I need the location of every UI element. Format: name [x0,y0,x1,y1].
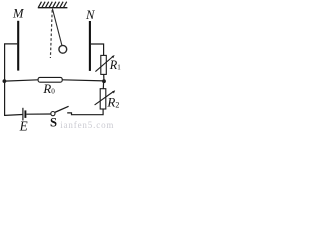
svg-text:E: E [19,118,28,131]
svg-text:R1: R1 [109,58,121,72]
battery E long plate [22,108,24,121]
rheostat R2 arrow [95,92,114,105]
svg-text:R0: R0 [42,82,55,96]
switch pivot circle [51,112,55,116]
wire junction to R2 [102,82,104,89]
rheostat R2 box [100,89,106,109]
junction dot right [102,79,106,83]
ceiling support line [38,7,68,9]
pendulum ball [59,45,67,53]
resistor R0 [38,77,62,82]
plumb dashed line [50,10,52,58]
svg-text:ianfen5.com: ianfen5.com [60,120,114,130]
rheostat R1 arrow [95,57,113,72]
switch lever [55,106,69,112]
ceiling hatch strokes [38,2,66,8]
wire R2 to bottom rail and switch stub [67,109,103,115]
wire left junction to R0 [5,80,39,81]
plate N [89,21,91,71]
junction dot left [3,79,7,83]
wire R0 to right junction [62,80,104,81]
svg-text:M: M [12,6,25,20]
rheostat R1 box [101,55,107,74]
svg-text:N: N [85,8,95,22]
battery E short plate [24,110,26,118]
wire N plate to R1 [91,44,104,55]
svg-text:S: S [50,116,57,130]
wire M plate to left rail down to battery [5,44,23,116]
wire R1 to junction [103,74,105,79]
pendulum string [52,9,62,46]
wire battery to switch [26,113,51,115]
svg-text:R2: R2 [106,95,119,110]
plate M [17,21,19,71]
